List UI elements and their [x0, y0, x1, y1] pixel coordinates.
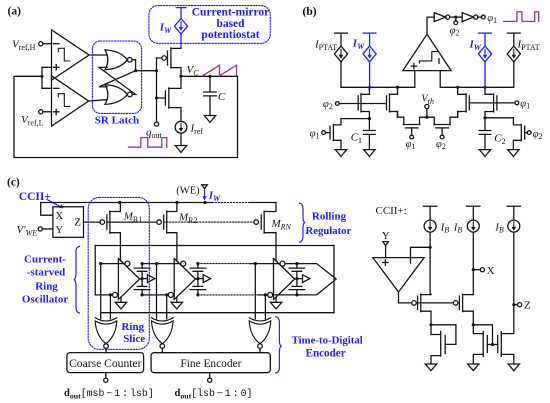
wire minus input to IB1 node — [411, 247, 431, 257]
wire Iref to ground — [180, 133, 182, 145]
S-phi2 left lead — [427, 117, 434, 124]
stage 1 MOS cap stack vertical — [141, 264, 143, 295]
comparator A1 step-down waveform glyph — [58, 48, 70, 61]
U2 step-up waveform glyph — [419, 52, 437, 63]
S-phi1 left lead — [398, 117, 404, 124]
box Coarse Counter — [67, 353, 144, 373]
NOR G1 output bubble — [127, 57, 132, 62]
node C2 top — [483, 116, 486, 119]
svg-text:Rolling: Rolling — [312, 211, 347, 223]
ground under Tr1 — [335, 150, 346, 157]
current source IPTAT left: top bar — [335, 32, 348, 34]
svg-text:CCII+:: CCII+: — [376, 205, 407, 217]
svg-text:SR Latch: SR Latch — [95, 115, 139, 127]
svg-text:based: based — [216, 18, 245, 30]
node wire B start — [99, 262, 102, 265]
stage 2 top starve bubble — [181, 261, 186, 266]
N1 gate tie loop — [431, 325, 456, 345]
node XNOR1 right tap — [109, 293, 112, 296]
current source IW left (blue) — [363, 33, 376, 87]
N2 gate bar — [486, 336, 488, 353]
node NMOS gate junction — [155, 96, 158, 99]
current source IW diamond (blue) — [174, 8, 187, 48]
U3 minus tick — [410, 259, 412, 263]
svg-text:Regulator: Regulator — [306, 225, 352, 237]
MR1 gate bar — [106, 215, 108, 229]
wire C1 node to reset switch — [341, 118, 369, 120]
svg-text:(a): (a) — [8, 5, 22, 17]
wire NOR1 output to Q node — [132, 60, 156, 71]
N3 drain lead to Z line — [501, 333, 514, 335]
M1 channel bar — [170, 48, 172, 68]
svg-text:potentiostat: potentiostat — [201, 29, 259, 41]
IB1 circle — [424, 220, 436, 232]
mirror gate link N2-N3 — [487, 344, 497, 346]
wire Z to MR gate line — [84, 221, 101, 223]
svg-text:(WE): (WE) — [176, 185, 200, 196]
transistor P2 PMOS: gate bubble — [453, 301, 458, 306]
XNOR gate X1 — [95, 318, 117, 321]
node capacitor tap — [208, 75, 211, 78]
Tr2 gate bar — [524, 126, 526, 139]
S-phi2 gate bar — [436, 127, 449, 129]
svg-text:(b): (b) — [303, 6, 317, 18]
node junction on input tie — [40, 75, 43, 78]
current source IB3 — [507, 205, 520, 207]
N1 gate bar — [444, 336, 446, 354]
NOR G2 output bubble — [127, 92, 132, 97]
MRN gate bar — [260, 215, 262, 229]
stage 1 tap buffer triangle — [142, 275, 155, 283]
ground under N2 — [468, 364, 479, 371]
node Q — [134, 69, 137, 72]
MR gate line dotted — [164, 221, 254, 223]
phi1 gate line — [469, 102, 515, 104]
transistor MR1 PMOS: gate bubble — [100, 220, 105, 225]
stage 2 output stub to cap stack — [195, 278, 198, 280]
transistor M1 PMOS: gate bubble — [162, 56, 167, 61]
Tphi1b channel bar — [465, 94, 467, 112]
brace Time-to-Digital Encoder (blue) — [276, 317, 282, 373]
stage 1 output stub to cap stack — [140, 278, 143, 280]
IW diamond — [174, 19, 187, 34]
ground under N1 — [425, 364, 436, 371]
phi2 gate line — [339, 103, 386, 105]
node XNOR3 left tap — [254, 262, 257, 265]
svg-text:X: X — [487, 265, 495, 277]
svg-text:C: C — [218, 91, 226, 103]
current source IB2 — [467, 205, 480, 207]
ground under Iref — [175, 146, 186, 153]
S-phi1 gate bar — [405, 127, 418, 129]
wire stage1 cap to stage2 top bubble — [142, 263, 181, 265]
transistor M2 NMOS: gate bar — [164, 91, 166, 105]
MR2 drain lead down to stage 2 — [167, 233, 177, 261]
wire VC node to capacitor and right edge — [181, 75, 238, 77]
IB2 wire down — [472, 232, 474, 294]
terminal Vref,L — [39, 110, 43, 114]
stage 1 cap nodes — [141, 262, 144, 265]
wire X feedback loop to top rail — [41, 203, 213, 216]
capacitor C stem bottom — [209, 96, 211, 116]
stage 3 ground — [275, 297, 277, 302]
comparator A1 minus sign — [54, 43, 59, 45]
svg-text:Coarse Counter: Coarse Counter — [69, 357, 142, 370]
vertical tap to XNOR1 right input — [109, 295, 111, 319]
stage1 bottom bubble wire — [95, 294, 112, 296]
IW injection arrow (blue) — [204, 191, 206, 197]
IW wire bottom — [180, 34, 182, 48]
capacitor C2 stem bottom — [484, 134, 486, 149]
stage 1 top starve bubble — [125, 261, 130, 266]
IPTAT-L stem — [340, 33, 342, 46]
P2 gate bar — [458, 296, 460, 309]
X2 output bubble — [160, 344, 165, 349]
op-amp U3 triangle — [373, 258, 424, 292]
NOR gate G2 (reset) — [105, 85, 127, 105]
wire feedback from VC into input tie — [14, 76, 238, 157]
terminal WE (small open v) — [202, 185, 208, 189]
P2 channel bar — [462, 294, 464, 311]
svg-text:(c): (c) — [7, 177, 20, 189]
qout pulse waveform — [129, 138, 167, 148]
svg-text:Y: Y — [55, 224, 63, 236]
svg-text:Slice: Slice — [123, 333, 145, 345]
MR gate line solid — [107, 221, 157, 223]
comparator A2 step-down waveform glyph — [58, 94, 70, 107]
ground under Tr2 — [508, 150, 519, 157]
transistor N3: gate bar — [497, 336, 499, 353]
wire U2 right input to right rail — [439, 71, 441, 88]
stage 3 cap plates — [289, 268, 305, 290]
SR latch blue dashed box — [92, 41, 141, 113]
ground under C1 — [364, 150, 375, 157]
S-phi2 gate stem + terminal — [441, 128, 443, 135]
MRN channel bar — [263, 211, 265, 233]
IB1 wire down — [429, 232, 431, 294]
IW wire top — [180, 8, 182, 19]
vertical XNOR3 right input — [264, 295, 266, 319]
capacitor C1 stem bottom — [368, 134, 370, 149]
node N1 drain — [429, 323, 432, 326]
wire NOR2 output cross-coupled to G1 input — [99, 67, 136, 94]
P1 source lead up — [421, 293, 431, 296]
S-phi2 right lead — [450, 117, 458, 124]
node rail MR1 — [118, 201, 121, 204]
svg-text:-starved: -starved — [27, 266, 66, 278]
inverter V2 — [462, 13, 473, 22]
wire U2 output to inverter chain — [427, 17, 434, 34]
Tr2 channel bar — [520, 125, 522, 141]
IW arrow — [180, 22, 182, 28]
P1 gate bar — [417, 296, 419, 309]
feedback bottom wire — [101, 312, 334, 314]
wire A left drop — [94, 246, 96, 295]
stage 3 tap buffer triangle — [297, 275, 310, 283]
comparator A2 minus sign — [54, 87, 59, 89]
vertical from wireB to bottom wire and XNOR1 — [100, 264, 102, 319]
wire cross-coupling Q to G2 input — [99, 71, 136, 87]
Tr2 source lead to ground — [513, 140, 521, 149]
node rail dots — [368, 86, 371, 89]
comparator A2 plus sign — [54, 109, 59, 114]
transistor Tphi2b: gate bar — [386, 96, 388, 110]
wire Vref,H to comparator — [43, 43, 52, 45]
Tr1 drain lead up — [333, 119, 341, 125]
node N2 drain — [472, 323, 475, 326]
svg-text:CCII+: CCII+ — [19, 191, 51, 203]
brace Current-starved Ring Oscillator (blue) — [74, 246, 80, 313]
M2 channel bar — [168, 88, 170, 108]
node Vth — [425, 116, 428, 119]
wire comparator A2 output to NOR2 — [89, 100, 108, 101]
IPTAT-L arrow — [340, 49, 342, 55]
N1 channel bar — [440, 332, 442, 357]
ring stage 2 inverter — [174, 259, 195, 300]
stage 2 tap buffer triangle — [198, 275, 211, 283]
P1 channel bar — [420, 294, 422, 311]
node XNOR3 right tap — [264, 293, 267, 296]
node mirror gate — [491, 343, 494, 346]
wire to stage3 bottom bubble — [258, 294, 268, 296]
Tphi2b stem to switch — [397, 112, 399, 118]
node phi2 tap — [454, 16, 457, 19]
wire Vref,L to comparator — [43, 111, 52, 113]
U2 plus sign — [411, 63, 416, 68]
current source IB1: top bar — [423, 205, 436, 207]
Tphi1b drain lead to rail — [458, 87, 466, 94]
MR1 channel bar — [109, 211, 111, 233]
capacitor C2 stem — [484, 118, 486, 131]
capacitor C stem top — [209, 76, 211, 92]
svg-text:Fine Encoder: Fine Encoder — [180, 358, 241, 370]
node XNOR2 left tap — [155, 262, 158, 265]
IB1 arrow — [429, 222, 431, 227]
terminal Z — [515, 304, 517, 306]
svg-text:Z: Z — [524, 300, 531, 312]
Tphi2b drain lead to rail — [390, 87, 398, 94]
ring slice blue dotted box — [88, 197, 149, 349]
Tphi1a source lead to C2 node — [485, 112, 494, 118]
X3 output bubble — [258, 344, 263, 349]
U2 minus tick — [438, 59, 440, 64]
M2 source lead (bottom) — [169, 108, 181, 122]
wire to NMOS gate — [157, 97, 166, 99]
terminal Vref,H — [39, 42, 43, 46]
N3 source lead to ground — [501, 354, 514, 364]
top rail dotted segment — [213, 202, 251, 204]
wire gate branch vertical — [156, 58, 158, 122]
top rail right solid — [250, 202, 276, 204]
CCII+ block box — [53, 207, 84, 238]
stage 1 ground — [120, 297, 122, 302]
Tphi2a drain lead to rail — [361, 87, 369, 94]
S-phi1 gate stem + terminal — [411, 128, 413, 135]
transistor Tphi2a: gate bar — [357, 96, 359, 110]
stage 1 cap plates — [134, 268, 150, 290]
node gate tie — [155, 69, 158, 72]
stage 2 ground — [176, 297, 178, 302]
wire C2 node to reset switch — [485, 117, 513, 119]
U3 plus — [383, 260, 388, 265]
chevron feedback around stage 3 (top) — [273, 264, 336, 295]
terminal phi1 — [515, 101, 519, 105]
stage 2 cap plates — [190, 268, 206, 290]
Tphi2a source lead to C1 node — [361, 112, 369, 119]
potentiostat blue dashed box — [149, 6, 270, 44]
vertical XNOR2 left input — [156, 264, 158, 319]
N2 source to ground — [473, 354, 483, 364]
svg-text:Y: Y — [382, 230, 390, 242]
MR2 channel bar — [166, 211, 168, 233]
wire U2 left input to left rail — [414, 71, 416, 88]
stage 3 top starve bubble — [280, 261, 285, 266]
capacitor C2 plates — [479, 131, 491, 135]
X2 output wire — [161, 348, 163, 352]
MR2 source lead to rail — [167, 203, 177, 212]
stage 3 output stub to cap stack — [295, 278, 297, 280]
MR1 drain lead down to stage 1 — [110, 233, 121, 260]
transistor Tphi1a: gate bar — [496, 96, 498, 110]
S-phi1 right lead — [420, 117, 427, 124]
N1 source to ground — [431, 356, 441, 364]
Tphi1a drain lead to rail — [485, 87, 494, 94]
wire stage1 cap bottom to stage2 bottom bubble — [142, 294, 168, 296]
stage 3 cap nodes — [295, 262, 298, 265]
Tr1 channel bar — [332, 125, 334, 141]
inverter V1 — [434, 13, 445, 22]
Tphi1b source lead down — [458, 112, 466, 118]
wire joining A1+ and A2- inputs — [42, 67, 52, 88]
reset transistor Tr2 (phi2): gate terminal — [527, 131, 531, 135]
wire to stage3 top bubble — [250, 263, 280, 265]
node rail MR2 — [175, 201, 178, 204]
terminal qout — [154, 122, 158, 126]
capacitor C1 plates — [364, 131, 376, 135]
MRN source lead to rail — [264, 203, 276, 212]
vertical XNOR3 left input — [254, 264, 256, 319]
transistor MRN PMOS: gate bubble — [254, 220, 259, 225]
P1 drain lead down — [421, 311, 431, 325]
svg-text:Ring: Ring — [121, 321, 144, 333]
svg-text:Current-: Current- — [24, 253, 66, 265]
Tr2 drain lead up — [513, 118, 521, 125]
transistor P1 PMOS: gate bubble — [412, 301, 417, 306]
terminal phi2 — [335, 102, 339, 106]
M2 drain lead (top) — [169, 76, 181, 88]
X1 output bubble — [104, 344, 109, 349]
comparator A1 plus sign — [54, 65, 59, 70]
ring stage 1 inverter — [118, 259, 139, 300]
terminal X — [475, 269, 480, 271]
stage 3 bottom starve bubble — [268, 292, 273, 297]
fine encoder output stub + terminal — [209, 373, 211, 379]
transistor N1 (diode): drain wire — [431, 325, 441, 335]
node XNOR2 right tap — [165, 293, 168, 296]
X3 output wire — [259, 348, 261, 352]
comparator A2 (bottom) body — [52, 76, 89, 126]
sawtooth waveform VC — [203, 65, 237, 76]
Vth switch S-phi1 (left): channel bar — [403, 124, 420, 126]
ground under C2 — [479, 150, 490, 157]
node Z tap — [512, 303, 515, 306]
Iref arrow — [180, 123, 182, 128]
comparator U2 triangle (apex up) — [403, 34, 451, 70]
Tphi1b stem to switch — [457, 112, 459, 118]
wire V1 to V2 — [450, 16, 462, 18]
coarse counter output stub + terminal — [105, 373, 107, 379]
X1 output wire — [105, 348, 107, 352]
box Fine Encoder — [151, 353, 270, 373]
svg-text:X: X — [55, 210, 63, 222]
svg-text:Current-mirror: Current-mirror — [192, 6, 270, 18]
wire V2 to phi1 terminal — [478, 16, 482, 18]
NOR gate G1 (set) — [105, 50, 127, 70]
ring stage 3 inverter — [274, 259, 295, 300]
XNOR gate X3 — [249, 318, 271, 321]
svg-text:Time-to-Digital: Time-to-Digital — [292, 334, 363, 346]
capacitor C1 stem — [368, 119, 370, 131]
Tphi2a channel bar — [360, 94, 362, 112]
terminal phi2 stub — [455, 17, 457, 21]
ground under N3 — [508, 364, 519, 371]
terminal V'WE — [38, 227, 42, 231]
M1 source lead (top) — [171, 47, 181, 50]
wire comparator A1 output to NOR1 — [89, 54, 107, 56]
P2 drain lead down — [463, 311, 474, 325]
N2 channel bar — [482, 332, 484, 357]
transistor MR2 PMOS: gate bubble — [157, 220, 162, 225]
transistor N2: drain wire — [473, 325, 483, 334]
node minus tie — [429, 246, 432, 249]
Tr1 source lead to ground — [333, 140, 341, 149]
stage 2 cap nodes — [196, 262, 199, 265]
ground under capacitor C — [204, 116, 215, 123]
M1 drain lead (bottom) — [171, 68, 181, 77]
feedback right edge — [333, 246, 335, 313]
wire V'WE to Y — [42, 228, 53, 230]
capacitor C plates — [204, 92, 217, 96]
IPTAT-L diamond — [334, 46, 347, 62]
Tphi2b source lead down — [390, 112, 398, 118]
MRN drain lead down to stage N — [264, 233, 276, 261]
svg-text:Oscillator: Oscillator — [22, 293, 69, 305]
stage 3 MOS cap stack vertical — [296, 264, 298, 295]
comparator A1 (top) body — [52, 30, 90, 80]
MR2 gate bar — [163, 215, 165, 229]
svg-text:Z: Z — [74, 217, 81, 229]
rail right — [440, 86, 514, 88]
IPTAT-L wire to rail — [340, 62, 342, 88]
mirror gate tie to drain — [473, 325, 492, 345]
svg-text:Ring: Ring — [35, 280, 58, 292]
transistor Tphi1b: gate bar — [468, 96, 470, 110]
Vth switch S-phi2 (right): channel bar — [434, 124, 451, 126]
wire op-amp output down — [399, 292, 412, 303]
IB3 wire down — [513, 232, 515, 334]
svg-text:Encoder: Encoder — [306, 348, 346, 360]
rail left — [341, 86, 415, 88]
current source IW right (blue) — [478, 33, 491, 87]
XNOR gate X2 — [152, 318, 174, 321]
M1 gate bar — [167, 51, 169, 65]
vertical XNOR2 right input — [166, 295, 168, 319]
IW top bar — [176, 7, 186, 9]
wire to PMOS gate — [157, 57, 162, 59]
N3 channel bar — [500, 332, 502, 357]
brace Rolling Regulator (blue) — [300, 203, 306, 242]
node C1 top — [368, 117, 371, 120]
